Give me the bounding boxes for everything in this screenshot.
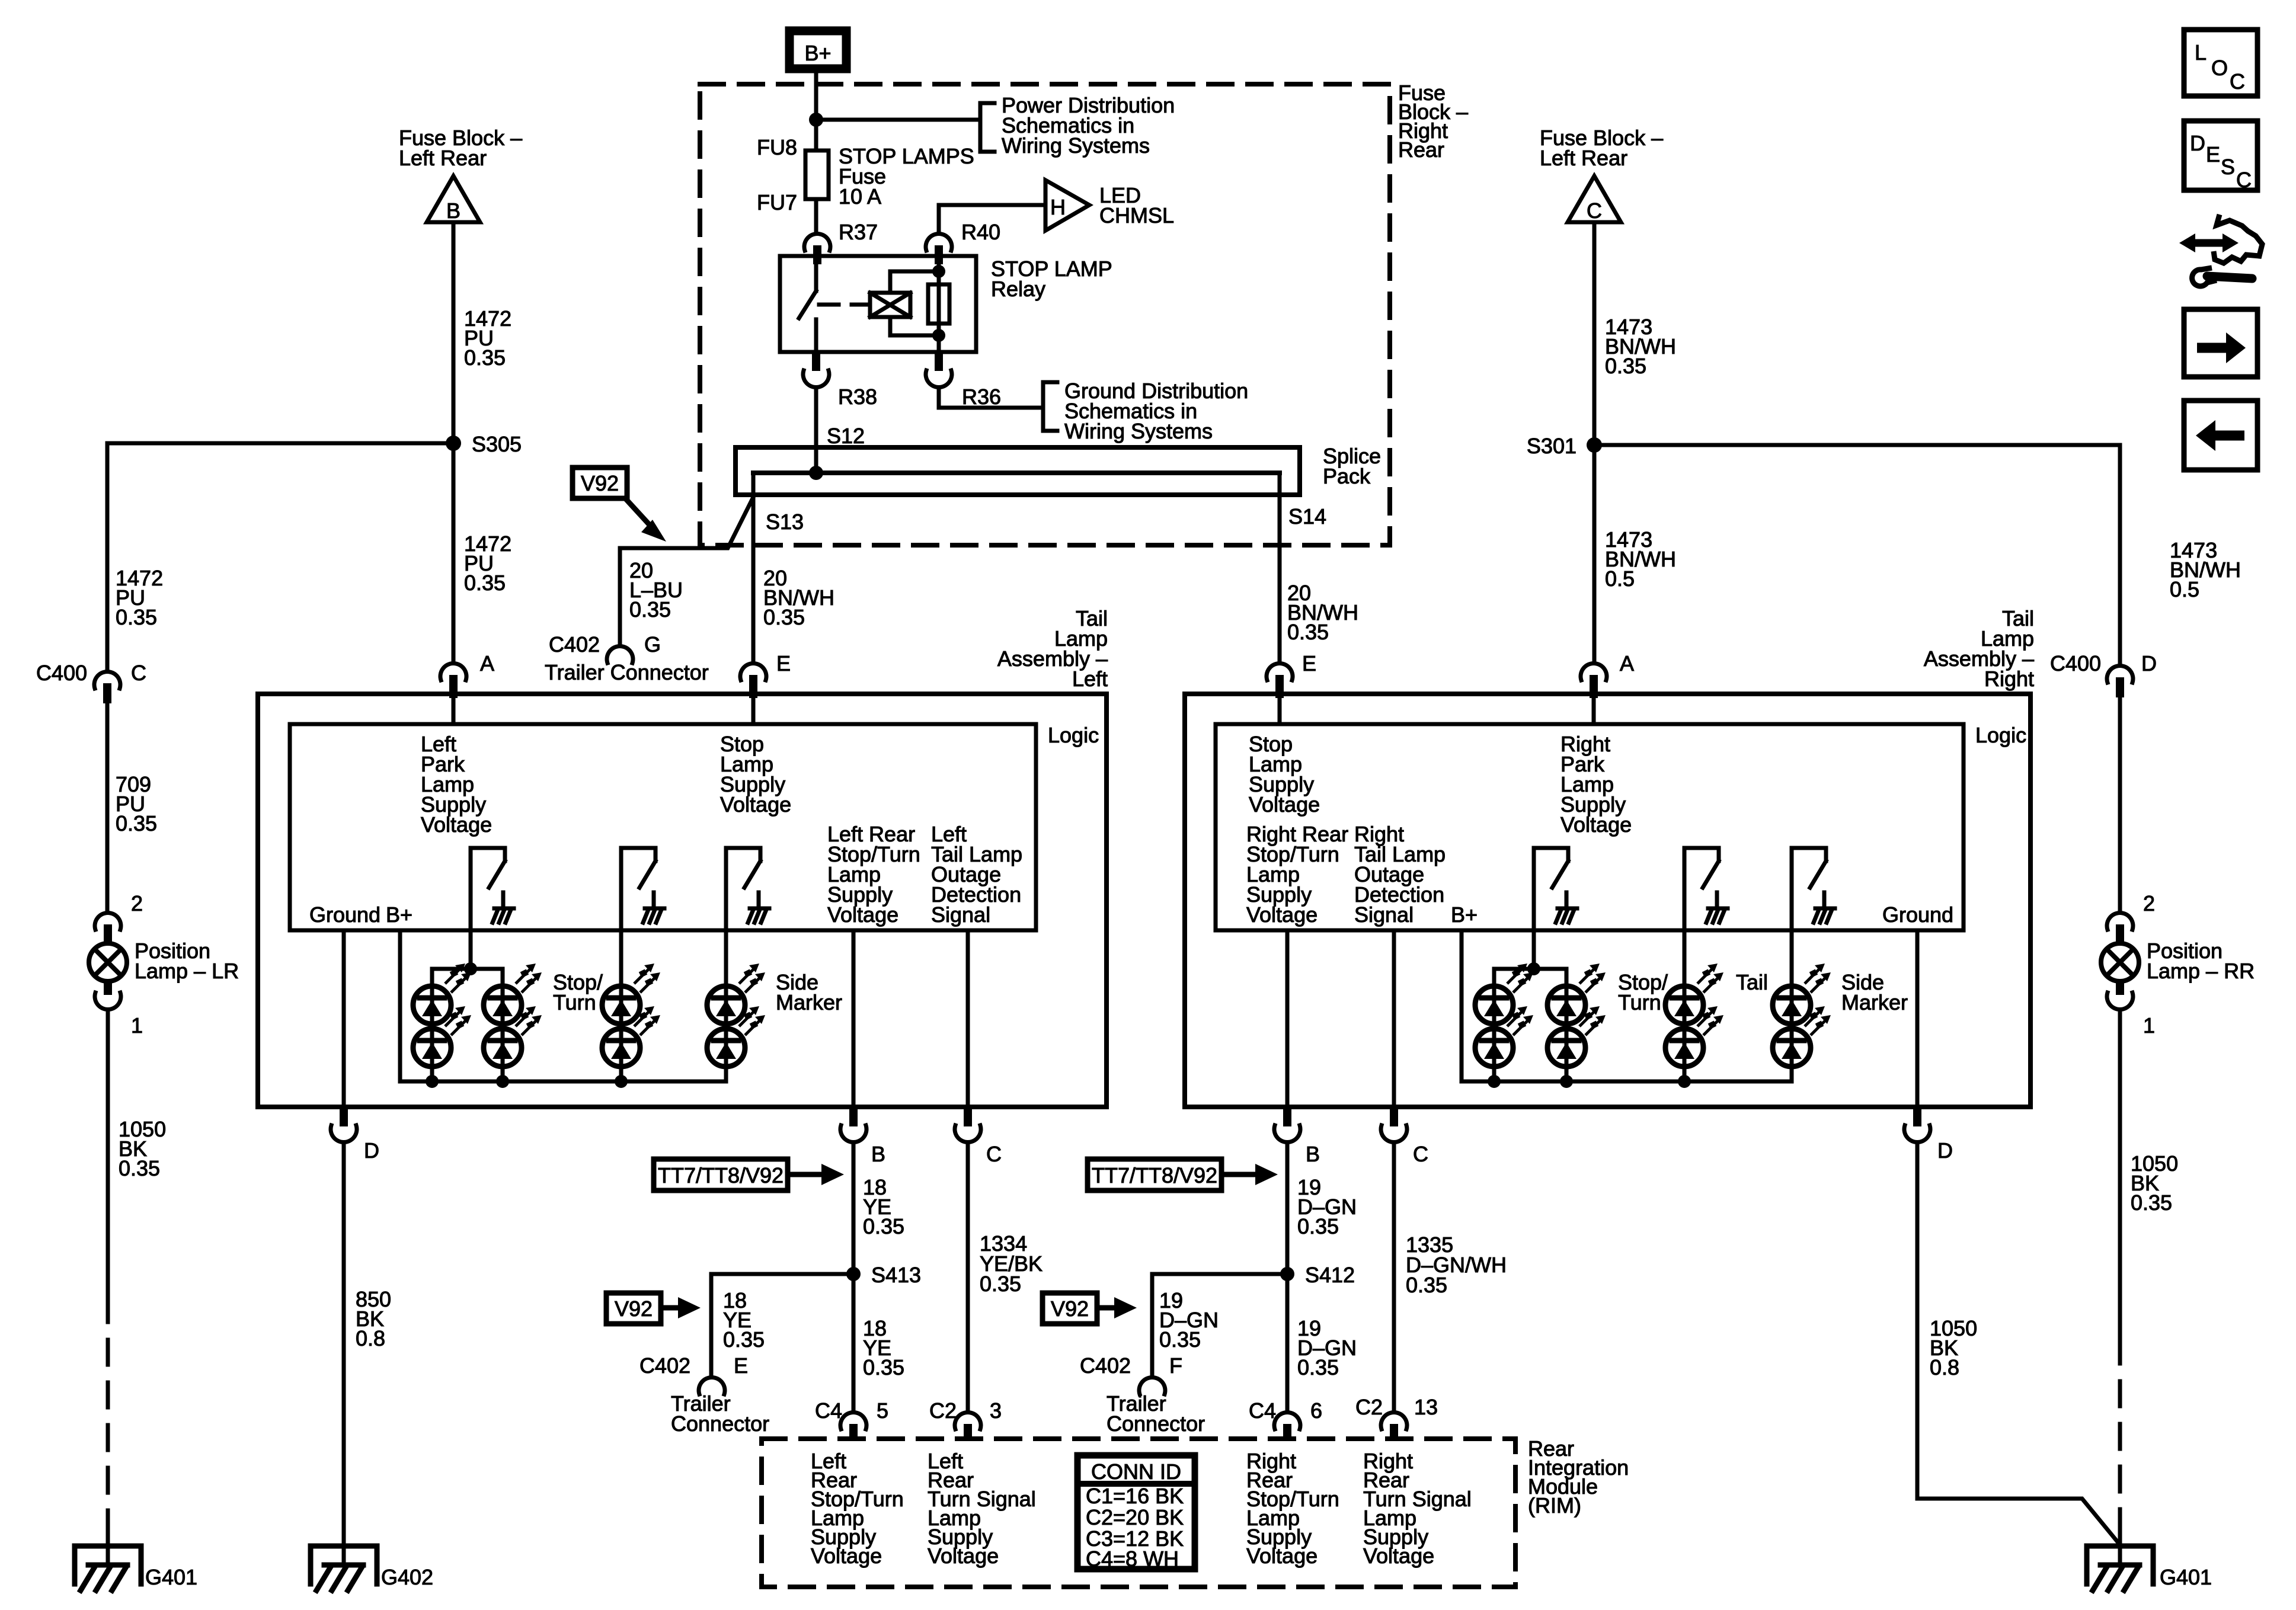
- label Tail: [1736, 970, 1768, 994]
- LED D16 right side marker lower: [1773, 1006, 1831, 1067]
- relay actuation dashed link: [819, 303, 868, 307]
- fuse FU8/FU7 STOP LAMPS 10A: [805, 151, 829, 199]
- svg-text:0.8: 0.8: [1930, 1355, 1959, 1379]
- label pin 1 lamp RR: [2143, 1013, 2155, 1038]
- svg-text:R37: R37: [839, 220, 878, 244]
- wire stop/turn out pin B left: [852, 930, 856, 1107]
- wire S413 to RIM C4-5: [852, 1274, 856, 1411]
- label Fuse Block - Left Rear (left): [399, 126, 522, 170]
- label G401 right: [2160, 1565, 2212, 1589]
- label pin E left assembly: [776, 651, 791, 676]
- svg-text:H: H: [1050, 195, 1066, 219]
- label S305: [472, 432, 522, 456]
- svg-text:1: 1: [131, 1013, 143, 1038]
- label Trailer Connector top: [545, 660, 709, 684]
- lamp Position Lamp - LR: [89, 943, 127, 981]
- svg-text:0.35: 0.35: [119, 1156, 160, 1180]
- bracket ground distribution: [1043, 382, 1057, 431]
- label Tail Lamp Assembly - Right: [1924, 606, 2034, 691]
- svg-text:B: B: [446, 199, 461, 223]
- wire LED column 3 right: [1683, 986, 1687, 1081]
- svg-text:0.35: 0.35: [1287, 620, 1329, 644]
- label B+ right logic: [1451, 902, 1478, 927]
- label C2 3: [929, 1398, 1002, 1423]
- svg-text:E: E: [776, 651, 791, 676]
- driver switch side marker left: [726, 848, 769, 923]
- label FU7: [757, 190, 797, 215]
- svg-text:C: C: [131, 661, 146, 685]
- wire LED column 4 left: [724, 986, 728, 1081]
- label STOP LAMPS Fuse 10 A: [839, 144, 974, 209]
- svg-text:Signal: Signal: [931, 902, 990, 927]
- wire pin E into logic: [752, 698, 756, 724]
- svg-text:Turn: Turn: [1618, 990, 1661, 1014]
- label Left Rear Stop/Turn Lamp Supply Voltage: [827, 822, 920, 927]
- power feed B+: [789, 31, 846, 69]
- svg-text:2: 2: [131, 891, 143, 916]
- wire 1050 BK lamp LR to G401 solid part: [106, 1011, 110, 1297]
- svg-text:C: C: [1413, 1142, 1428, 1166]
- node rail column 3 right: [1678, 1075, 1691, 1088]
- label S12: [827, 424, 865, 448]
- svg-text:E: E: [734, 1353, 748, 1378]
- svg-text:G402: G402: [381, 1565, 433, 1589]
- wire S412 to RIM C4-6: [1285, 1274, 1290, 1411]
- node rail column 2: [496, 1075, 509, 1088]
- wire coil to resistor top: [890, 271, 939, 293]
- svg-text:Lamp – RR: Lamp – RR: [2147, 959, 2255, 983]
- label Tail Lamp Assembly - Left: [997, 606, 1108, 691]
- wire R40 leg through relay: [937, 256, 941, 352]
- label pin D right: [1937, 1138, 1953, 1163]
- svg-text:Connector: Connector: [671, 1411, 769, 1436]
- svg-text:C402: C402: [1080, 1353, 1131, 1378]
- svg-text:Voltage: Voltage: [720, 792, 791, 817]
- label Left Park Lamp Supply Voltage: [421, 732, 492, 837]
- svg-text:Turn: Turn: [553, 990, 596, 1014]
- wire 1473 BN/WH triangle C to pin A: [1593, 222, 1597, 662]
- svg-text:R36: R36: [962, 385, 1001, 409]
- label Right Park Lamp Supply Voltage: [1560, 732, 1632, 837]
- wire trailer tap from S13: [620, 497, 753, 645]
- LED D14 right tail lower: [1665, 1006, 1723, 1067]
- svg-text:Left Rear: Left Rear: [399, 146, 487, 170]
- label Side Marker left: [776, 970, 842, 1014]
- connector R36: [926, 352, 952, 388]
- svg-text:Voltage: Voltage: [421, 812, 492, 837]
- wire tap to power distribution bracket: [816, 118, 980, 122]
- svg-text:(RIM): (RIM): [1528, 1493, 1581, 1518]
- connector lamp RR pin 2: [2107, 913, 2133, 944]
- ground G402: [311, 1546, 377, 1590]
- label Side Marker right: [1841, 970, 1908, 1014]
- node park jumper: [464, 962, 477, 975]
- wire park driver to LED jumper: [469, 848, 473, 969]
- svg-text:C402: C402: [639, 1353, 690, 1378]
- LED D7 left side marker: [707, 964, 765, 1024]
- connector lamp LR pin 1: [95, 981, 121, 1010]
- svg-text:C400: C400: [36, 661, 87, 685]
- fuse block right rear dashed outline: [700, 84, 1390, 545]
- wire 850 BK to G402: [342, 1144, 346, 1565]
- wire LED column 1 left: [430, 986, 434, 1081]
- connector C402 G trailer: [607, 646, 633, 663]
- label Position Lamp - RR: [2147, 939, 2255, 983]
- label pin B right: [1306, 1142, 1320, 1166]
- label S13: [766, 510, 804, 534]
- wire LED column 2 left: [501, 986, 505, 1081]
- label pin A right assembly: [1620, 651, 1634, 676]
- icon box arrow left: [2184, 401, 2257, 470]
- svg-text:CHMSL: CHMSL: [1099, 203, 1174, 228]
- LED D15 right side marker: [1773, 964, 1831, 1024]
- logic module box left: [290, 724, 1036, 930]
- connector C4 pin 6: [1274, 1412, 1300, 1441]
- svg-text:D: D: [1937, 1138, 1953, 1163]
- wire coil to resistor bottom: [890, 317, 939, 335]
- svg-text:Wiring Systems: Wiring Systems: [1064, 419, 1213, 443]
- svg-text:TT7/TT8/V92: TT7/TT8/V92: [1092, 1163, 1217, 1188]
- svg-text:CONN ID: CONN ID: [1091, 1459, 1181, 1484]
- label C4 5: [815, 1398, 888, 1423]
- label Ground left logic: [309, 902, 380, 927]
- connector C402 F trailer: [1139, 1377, 1165, 1394]
- label Trailer Connector left: [671, 1391, 769, 1436]
- label C400 D: [2050, 651, 2157, 676]
- svg-text:Connector: Connector: [1107, 1411, 1205, 1436]
- LED D12 right stop/turn lower: [1547, 1006, 1606, 1067]
- svg-text:0.5: 0.5: [1605, 566, 1635, 591]
- flag V92 left: [606, 1293, 701, 1324]
- wire park LED jumper: [432, 969, 503, 986]
- label Position Lamp - LR: [135, 939, 239, 983]
- label 1050 BK 0.35 right: [2131, 1151, 2178, 1215]
- wire S13 drop: [752, 473, 756, 662]
- svg-text:FU8: FU8: [757, 135, 797, 159]
- svg-text:A: A: [1620, 651, 1634, 676]
- svg-text:Tail: Tail: [1736, 970, 1768, 994]
- svg-text:R38: R38: [838, 385, 877, 409]
- icon box arrow right: [2184, 309, 2257, 377]
- driver switch stop/turn right: [1534, 848, 1577, 923]
- wire LED column 3 left: [619, 986, 623, 1081]
- wire pin B left to S413: [852, 1144, 856, 1274]
- wire outage out pin C left: [966, 930, 970, 1107]
- label Stop Lamp Supply Voltage right: [1249, 732, 1320, 817]
- svg-text:Marker: Marker: [776, 990, 842, 1014]
- svg-text:Voltage: Voltage: [1249, 792, 1320, 817]
- off-page triangle C: [1568, 176, 1621, 223]
- splice pack outer box: [736, 447, 1300, 495]
- label 1334 YE/BK 0.35: [980, 1231, 1043, 1296]
- wire R38 to splice S12: [814, 389, 818, 473]
- connector pin E left assembly: [740, 663, 766, 698]
- svg-text:0.35: 0.35: [980, 1272, 1021, 1296]
- svg-text:V92: V92: [1051, 1297, 1089, 1321]
- label 709 PU 0.35: [116, 772, 157, 836]
- wire ground pin D right: [1916, 930, 1920, 1107]
- wire B+ to LED rail left: [400, 930, 726, 1081]
- rear integration module dashed outline: [762, 1439, 1515, 1587]
- svg-text:F: F: [1169, 1353, 1182, 1378]
- connector pin E right assembly: [1267, 663, 1293, 698]
- svg-text:0.35: 0.35: [1297, 1355, 1339, 1379]
- off-page triangle B: [427, 176, 480, 223]
- label 20 BN/WH 0.35 right: [1287, 581, 1358, 644]
- svg-text:Voltage: Voltage: [1363, 1544, 1434, 1568]
- label R37: [839, 220, 878, 244]
- label pin C right: [1413, 1142, 1428, 1166]
- connector R37: [804, 233, 830, 264]
- label Stop/Turn right: [1618, 970, 1668, 1014]
- svg-text:Left Rear: Left Rear: [1540, 146, 1627, 170]
- connector C2 pin 3: [955, 1412, 981, 1441]
- svg-text:D: D: [364, 1138, 379, 1163]
- svg-text:Voltage: Voltage: [811, 1544, 882, 1568]
- label R38: [838, 385, 877, 409]
- svg-text:G: G: [644, 632, 661, 657]
- LED D11 right stop/turn: [1547, 964, 1606, 1024]
- svg-text:B+: B+: [1451, 902, 1478, 927]
- wire stop/turn LED jumper right: [1494, 969, 1566, 986]
- wire side marker driver to LED right: [1790, 848, 1794, 986]
- node stop/turn jumper right: [1527, 962, 1540, 975]
- label pin A left assembly: [480, 651, 494, 676]
- label 18 YE 0.35 branch: [723, 1288, 765, 1352]
- svg-text:B: B: [1306, 1142, 1320, 1166]
- node rail column 1: [426, 1075, 439, 1088]
- wire R40 to LED CHMSL: [939, 205, 1045, 233]
- svg-text:B+: B+: [804, 41, 831, 65]
- connector pin C right: [1381, 1107, 1407, 1142]
- wire fuse to R37: [814, 199, 818, 233]
- svg-text:10 A: 10 A: [839, 184, 881, 209]
- connector C4 pin 5: [840, 1412, 866, 1441]
- wire LED column 4 right: [1790, 986, 1794, 1081]
- label Fuse Block Right Rear: [1398, 81, 1468, 162]
- driver switch stop/turn left: [621, 848, 664, 923]
- svg-text:Voltage: Voltage: [1246, 1544, 1318, 1568]
- label STOP LAMP Relay: [991, 257, 1112, 301]
- wire into ground right: [2118, 1529, 2122, 1565]
- svg-text:0.35: 0.35: [1159, 1327, 1201, 1352]
- svg-text:0.35: 0.35: [116, 811, 157, 836]
- label 1473 BN/WH 0.5 center: [1605, 527, 1676, 591]
- svg-text:S305: S305: [472, 432, 522, 456]
- label Left Rear Stop/Turn Lamp Supply Voltage RIM: [811, 1449, 904, 1568]
- LED D5 left stop/turn: [602, 964, 660, 1024]
- svg-text:C2: C2: [929, 1398, 957, 1423]
- conn id table: [1077, 1455, 1195, 1571]
- connector lamp RR pin 1: [2107, 981, 2133, 1010]
- connector lamp LR pin 2: [95, 913, 121, 944]
- wire S413 to trailer connector E: [711, 1274, 853, 1376]
- lamp Position Lamp - RR: [2101, 943, 2139, 981]
- svg-text:A: A: [480, 651, 494, 676]
- node rail column 2 right: [1560, 1075, 1573, 1088]
- svg-text:S413: S413: [871, 1263, 921, 1287]
- svg-text:Voltage: Voltage: [1560, 812, 1632, 837]
- label Right Rear Stop/Turn Lamp Supply Voltage RIM: [1246, 1449, 1339, 1568]
- connector pin D right: [1904, 1107, 1930, 1142]
- svg-text:S12: S12: [827, 424, 865, 448]
- svg-text:C4: C4: [1249, 1398, 1276, 1423]
- svg-text:R40: R40: [961, 220, 1000, 244]
- wire S301 to C400 D: [1594, 445, 2120, 664]
- connector pin A right assembly: [1581, 663, 1607, 698]
- LED D8 left side marker lower: [707, 1006, 765, 1067]
- connector R40: [926, 233, 952, 264]
- LED D10 right stop/turn lower: [1475, 1006, 1533, 1067]
- ground G401 left: [75, 1546, 141, 1590]
- svg-text:TT7/TT8/V92: TT7/TT8/V92: [658, 1163, 784, 1188]
- label pin B left: [871, 1142, 885, 1166]
- LED D4 left park lower: [484, 1006, 542, 1067]
- LED D2 left park lower: [413, 1006, 471, 1067]
- wire 1050 BK 0.8 to G401: [1917, 1144, 2120, 1545]
- label 19 D-GN 0.35 upper: [1297, 1175, 1357, 1238]
- label 18 YE 0.35 lower: [863, 1316, 904, 1379]
- svg-text:Rear: Rear: [1398, 137, 1444, 162]
- label R36: [962, 385, 1001, 409]
- wire tail driver to LED right: [1683, 848, 1687, 986]
- svg-text:L: L: [2195, 40, 2207, 65]
- wire S14 drop: [1278, 473, 1282, 662]
- wire stop/turn driver to LED left: [619, 848, 623, 986]
- wire C400 C to position lamp LR: [105, 703, 110, 912]
- svg-text:Voltage: Voltage: [827, 902, 898, 927]
- svg-text:Right: Right: [1984, 667, 2034, 691]
- wire R36 to ground distribution bracket: [939, 389, 1043, 408]
- relay coil: [870, 293, 910, 317]
- svg-text:2: 2: [2143, 891, 2155, 916]
- connector pin D left: [331, 1107, 357, 1142]
- svg-text:0.8: 0.8: [356, 1326, 385, 1350]
- label 1335 D-GN/WH 0.35: [1406, 1233, 1507, 1297]
- svg-text:Voltage: Voltage: [1246, 902, 1318, 927]
- svg-text:C: C: [2230, 69, 2245, 94]
- svg-text:Left: Left: [1072, 667, 1108, 691]
- connector pin C left: [955, 1107, 981, 1142]
- label 1472 PU 0.35 lower: [464, 532, 511, 595]
- svg-text:C400: C400: [2050, 651, 2101, 676]
- label Right Rear Turn Signal Lamp Supply Voltage RIM: [1363, 1449, 1472, 1568]
- label Trailer Connector right: [1107, 1391, 1205, 1436]
- wire pin C left to RIM C2-3: [966, 1144, 970, 1411]
- label LED CHMSL: [1099, 183, 1174, 228]
- splice pack inner bus: [753, 470, 1280, 475]
- driver switch side marker right: [1792, 848, 1835, 923]
- wire LED column 2 right: [1565, 986, 1569, 1081]
- label FU8: [757, 135, 797, 159]
- svg-text:V92: V92: [615, 1297, 653, 1321]
- label 20 L-BU 0.35: [629, 558, 683, 622]
- svg-text:Lamp – LR: Lamp – LR: [135, 959, 239, 983]
- logic module box right: [1216, 724, 1964, 930]
- svg-text:D: D: [2141, 651, 2157, 676]
- icon box LOC: [2184, 30, 2257, 96]
- label S412: [1305, 1263, 1355, 1287]
- label 1050 BK 0.8: [1930, 1316, 1977, 1379]
- wire 1050 BK dashed part right: [2118, 1339, 2122, 1529]
- svg-text:V92: V92: [581, 471, 619, 495]
- svg-text:G401: G401: [2160, 1565, 2212, 1589]
- LED D3 left park: [484, 964, 542, 1024]
- connector pin B left: [840, 1107, 866, 1142]
- wire into ground: [106, 1529, 110, 1565]
- svg-text:C: C: [1587, 199, 1602, 223]
- label Power Distribution Schematics in Wiring Systems: [1002, 93, 1175, 158]
- flag V92 top: [573, 468, 666, 542]
- label S413: [871, 1263, 921, 1287]
- wire side marker driver to LED left: [724, 848, 728, 986]
- driver switch park left: [471, 848, 514, 923]
- wire 1050 BK lamp RR solid part: [2118, 1011, 2122, 1339]
- wire 1050 BK dashed part: [106, 1297, 110, 1529]
- svg-text:Ground: Ground: [309, 902, 380, 927]
- svg-text:5: 5: [877, 1398, 888, 1423]
- svg-text:C: C: [2236, 168, 2252, 192]
- connector pin A left assembly: [440, 663, 466, 698]
- label pin C left: [986, 1142, 1002, 1166]
- label pin 2 lamp RR: [2143, 891, 2155, 916]
- label pin E right assembly: [1302, 651, 1316, 676]
- wire pin E into logic right: [1278, 698, 1282, 724]
- LED D1 left park: [413, 964, 471, 1024]
- svg-text:Voltage: Voltage: [928, 1544, 999, 1568]
- svg-text:B+: B+: [386, 902, 412, 927]
- LED D6 left stop/turn lower: [602, 1006, 660, 1067]
- svg-text:13: 13: [1414, 1395, 1438, 1419]
- connector pin B right: [1274, 1107, 1300, 1142]
- label S301: [1527, 434, 1576, 458]
- svg-text:0.35: 0.35: [1605, 354, 1646, 378]
- svg-text:Logic: Logic: [1048, 723, 1099, 747]
- LED D13 right tail: [1665, 964, 1723, 1024]
- svg-text:Relay: Relay: [991, 277, 1045, 301]
- label C402 G: [549, 632, 661, 657]
- wire S412 to trailer connector F: [1152, 1274, 1287, 1376]
- label 1050 BK 0.35 left: [119, 1117, 166, 1180]
- svg-text:0.35: 0.35: [763, 605, 805, 629]
- label pin D left: [364, 1138, 379, 1163]
- svg-text:G401: G401: [145, 1565, 197, 1589]
- label Logic left: [1048, 723, 1099, 747]
- svg-text:Wiring Systems: Wiring Systems: [1002, 133, 1150, 158]
- node resistor top: [932, 265, 945, 278]
- label 850 BK 0.8: [356, 1287, 391, 1350]
- svg-text:B: B: [871, 1142, 885, 1166]
- flag V92 right: [1043, 1293, 1137, 1324]
- svg-text:S14: S14: [1288, 504, 1326, 529]
- svg-text:Logic: Logic: [1975, 723, 2026, 747]
- label pin 2 lamp LR: [131, 891, 143, 916]
- svg-text:C2=20 BK: C2=20 BK: [1086, 1505, 1184, 1529]
- label Splice Pack: [1323, 444, 1381, 488]
- wire pin B right to S412: [1285, 1144, 1290, 1274]
- flag TT7/TT8/V92 left: [654, 1159, 844, 1190]
- svg-text:Signal: Signal: [1354, 902, 1414, 927]
- svg-text:3: 3: [990, 1398, 1002, 1423]
- label 1473 BN/WH 0.5 right: [2170, 538, 2241, 601]
- driver switch tail right: [1684, 848, 1728, 923]
- label Stop/Turn left: [553, 970, 603, 1014]
- LED D9 right stop/turn: [1475, 964, 1533, 1024]
- node S305: [446, 436, 461, 451]
- svg-text:0.35: 0.35: [863, 1355, 904, 1379]
- wire stop/turn driver to LED jumper right: [1532, 848, 1536, 969]
- tail lamp assembly left outline: [258, 694, 1107, 1107]
